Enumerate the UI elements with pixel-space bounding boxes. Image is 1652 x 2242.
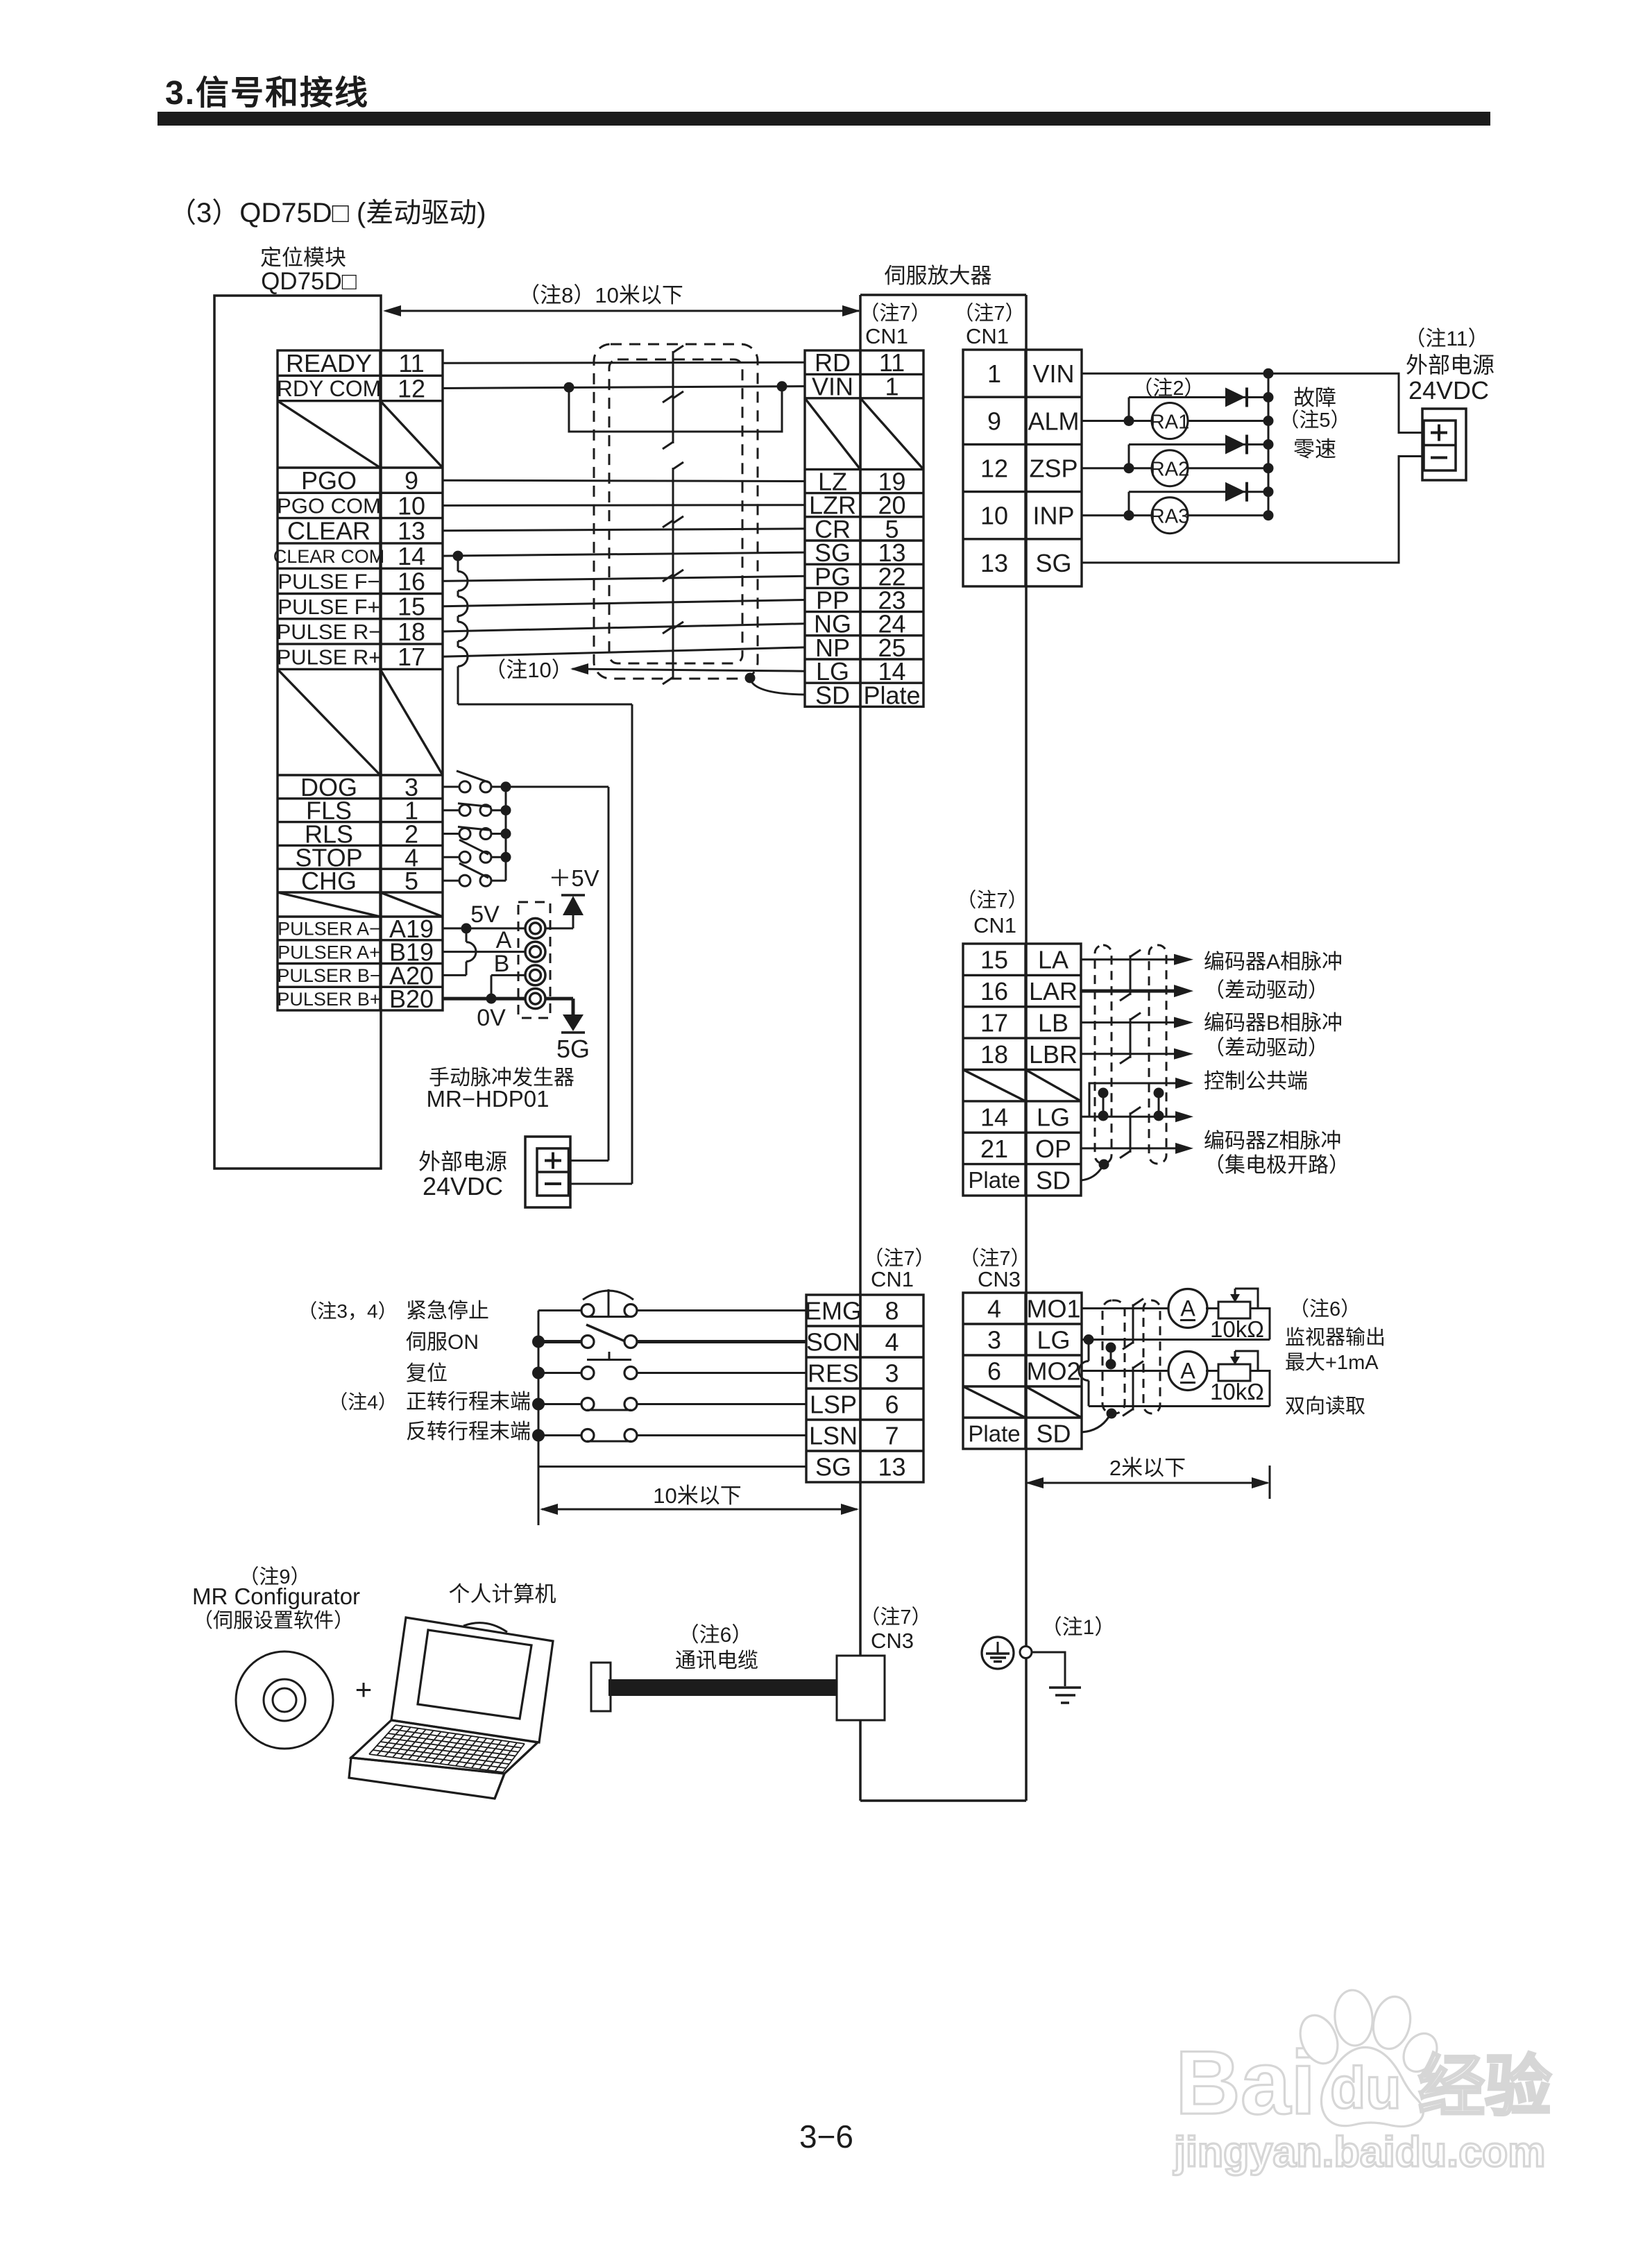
svg-text:5: 5 xyxy=(405,867,418,895)
servo CN1 control-input pin table xyxy=(806,1295,923,1482)
wire MO2 to meter xyxy=(1082,1370,1168,1372)
encoder cable sheath 1 (dashed) xyxy=(1095,945,1112,1164)
junction before RA3 xyxy=(1124,510,1134,520)
svg-text:个人计算机: 个人计算机 xyxy=(449,1582,556,1606)
note8 cable-length arrow xyxy=(386,310,859,312)
svg-text:编码器B相脉冲: 编码器B相脉冲 xyxy=(1204,1012,1343,1035)
svg-text:OP: OP xyxy=(1035,1135,1071,1163)
svg-text:10kΩ: 10kΩ xyxy=(1210,1379,1264,1404)
svg-text:（差动驱动）: （差动驱动） xyxy=(1204,979,1329,1002)
twisted pair symbol 3 xyxy=(672,468,674,522)
wire CLEARCOM drop segment xyxy=(457,556,459,571)
QD75D pin table xyxy=(278,350,443,1010)
junction before RA1 xyxy=(1124,416,1134,426)
twisted pair monitor 1 xyxy=(1132,1305,1134,1344)
svg-text:B: B xyxy=(494,951,510,977)
svg-text:（注1）: （注1） xyxy=(1041,1616,1116,1639)
pulser terminal 2 xyxy=(525,942,545,962)
bus extension xyxy=(538,1467,540,1526)
laptop body front xyxy=(349,1758,504,1799)
twisted pair symbol 2 xyxy=(672,397,674,443)
wire 5V down segment xyxy=(466,928,468,942)
svg-text:LAR: LAR xyxy=(1029,977,1078,1005)
svg-text:4: 4 xyxy=(885,1327,899,1356)
pulser terminal 3 xyxy=(525,965,545,985)
svg-text:RES: RES xyxy=(808,1359,859,1387)
potentiometer R1 10k xyxy=(1218,1302,1250,1318)
wire hop over PULSER A+ wire xyxy=(466,942,476,962)
dimension 10m line xyxy=(542,1509,857,1511)
svg-text:3: 3 xyxy=(885,1359,899,1387)
svg-text:MR Configurator: MR Configurator xyxy=(192,1583,360,1609)
svg-text:10: 10 xyxy=(980,502,1008,530)
shield tie b xyxy=(1158,1093,1160,1116)
junction bus DOG xyxy=(501,781,511,792)
svg-text:LSN: LSN xyxy=(809,1421,858,1450)
svg-text:PULSE F−: PULSE F− xyxy=(278,570,380,594)
minus terminal mark xyxy=(1431,457,1447,459)
terminal box (dashed) xyxy=(518,902,550,1018)
switch FLS blade xyxy=(458,804,491,807)
communication cable xyxy=(608,1679,837,1696)
svg-text:14: 14 xyxy=(980,1103,1008,1132)
svg-text:13: 13 xyxy=(878,1452,905,1481)
svg-text:13: 13 xyxy=(980,549,1008,577)
svg-text:正转行程末端: 正转行程末端 xyxy=(406,1391,531,1413)
svg-text:（注7）: （注7） xyxy=(859,302,930,325)
svg-text:MR−HDP01: MR−HDP01 xyxy=(427,1086,550,1112)
monitor cable sheath 1 (dashed) xyxy=(1102,1300,1125,1413)
svg-text:（3）QD75D□ (差动驱动): （3）QD75D□ (差动驱动) xyxy=(169,198,486,228)
svg-text:SG: SG xyxy=(1035,549,1071,577)
svg-text:LA: LA xyxy=(1038,946,1068,974)
wire SG common xyxy=(538,1466,806,1468)
wire hop over MO2 xyxy=(1079,1361,1089,1381)
svg-text:LG: LG xyxy=(1037,1103,1070,1132)
wire PULSER A+ to terminal A xyxy=(443,951,525,953)
wire SON switch to table xyxy=(637,1340,806,1343)
svg-text:CLEAR COM: CLEAR COM xyxy=(273,546,385,567)
svg-text:6: 6 xyxy=(885,1390,899,1418)
switch FLS contacts xyxy=(459,805,470,816)
encoder cable sheath 2 (dashed) xyxy=(1149,945,1166,1164)
wire RLS switch to bus xyxy=(491,833,506,835)
wire RDYCOM-VIN xyxy=(443,387,805,389)
wire CHG switch to bus xyxy=(491,880,506,882)
svg-text:18: 18 xyxy=(398,618,425,646)
wire STOP switch to bus xyxy=(491,856,506,858)
svg-text:PULSE F+: PULSE F+ xyxy=(278,595,380,619)
svg-text:B20: B20 xyxy=(389,985,434,1013)
svg-text:9: 9 xyxy=(987,407,1001,435)
svg-text:PGO COM: PGO COM xyxy=(277,494,381,518)
svg-text:复位: 复位 xyxy=(406,1362,448,1385)
svg-text:（注3，4）: （注3，4） xyxy=(298,1300,397,1322)
wire bus to SON switch xyxy=(538,1340,582,1343)
wire pot1 return xyxy=(1250,1309,1270,1340)
svg-text:CN1: CN1 xyxy=(966,324,1009,348)
junction LG b xyxy=(1154,1111,1164,1121)
svg-text:RDY COM: RDY COM xyxy=(277,376,382,401)
wire terminal4 to 5G arrow xyxy=(545,997,573,1001)
junction bus 3a xyxy=(1263,486,1274,497)
wire into battery minus xyxy=(570,1183,632,1185)
svg-text:15: 15 xyxy=(398,593,425,621)
cable sheath outer (dashed) xyxy=(594,344,758,679)
svg-text:监视器输出: 监视器输出 xyxy=(1285,1326,1386,1349)
wire SD to sheath monitor xyxy=(1082,1417,1109,1432)
+5V supply arrow xyxy=(563,896,584,915)
svg-text:QD75D□: QD75D□ xyxy=(261,268,357,295)
svg-text:A: A xyxy=(496,927,512,953)
twisted pair encoder A xyxy=(1130,956,1132,995)
svg-text:CN3: CN3 xyxy=(978,1267,1021,1291)
svg-text:A: A xyxy=(1180,1296,1195,1321)
svg-text:CN3: CN3 xyxy=(871,1629,914,1653)
svg-text:CN1: CN1 xyxy=(871,1267,914,1291)
svg-text:24VDC: 24VDC xyxy=(1408,376,1489,405)
switch STOP blade xyxy=(459,840,488,854)
ammeter A1 xyxy=(1168,1289,1207,1328)
earth ground symbol xyxy=(1049,1686,1081,1689)
servo CN1 encoder-output pin table xyxy=(963,944,1081,1196)
switch SON contacts xyxy=(581,1336,594,1348)
wire PULSER--NG xyxy=(443,624,805,631)
wire PULSER A- (5V) xyxy=(443,927,525,929)
svg-text:反转行程末端: 反转行程末端 xyxy=(406,1420,531,1443)
wire to earth xyxy=(1032,1652,1065,1686)
svg-text:A: A xyxy=(1180,1359,1195,1384)
svg-text:3−6: 3−6 xyxy=(799,2118,853,2155)
servo CN3 monitor pin table xyxy=(963,1293,1082,1449)
svg-text:CN1: CN1 xyxy=(973,913,1016,937)
wire LBR output xyxy=(1081,1053,1175,1055)
wire SD to sheath xyxy=(750,678,805,695)
switch common bus xyxy=(505,787,507,881)
svg-text:经验: 经验 xyxy=(1418,2050,1551,2124)
twisted pair symbol 5 xyxy=(672,575,674,628)
control switch bus xyxy=(538,1311,540,1467)
pulser terminal 4 xyxy=(525,989,545,1009)
svg-text:6: 6 xyxy=(987,1357,1001,1385)
wire PULSER B- stub xyxy=(443,974,466,976)
wire return bottom xyxy=(1089,1405,1270,1407)
wire bus to RES switch xyxy=(538,1372,582,1374)
wire RES switch to table xyxy=(637,1372,806,1374)
wire vertical to battery minus xyxy=(631,704,633,1184)
svg-text:READY: READY xyxy=(286,349,372,377)
junction bus 1b xyxy=(1263,416,1274,426)
svg-text:PULSER B−: PULSER B− xyxy=(277,965,380,986)
svg-text:故障: 故障 xyxy=(1293,386,1336,410)
junction bus 1a xyxy=(1263,392,1274,402)
svg-text:16: 16 xyxy=(980,977,1008,1005)
svg-text:11: 11 xyxy=(398,349,424,377)
svg-text:+: + xyxy=(355,1673,373,1706)
switch RLS contacts xyxy=(459,829,470,840)
wire OP output xyxy=(1081,1147,1175,1149)
servo CN1 output pin table xyxy=(963,350,1082,586)
external 24VDC supply (top) xyxy=(1422,409,1466,480)
svg-text:（注11）: （注11） xyxy=(1404,328,1488,350)
LSN switch bridge xyxy=(587,1441,631,1443)
svg-text:PULSER A−: PULSER A− xyxy=(278,919,380,940)
svg-text:编码器Z相脉冲: 编码器Z相脉冲 xyxy=(1204,1130,1341,1153)
relay coil RA2 xyxy=(1152,450,1188,486)
svg-text:（注6）: （注6） xyxy=(679,1624,753,1647)
wire hop over PULSE R+ wire xyxy=(458,647,468,666)
svg-text:SD: SD xyxy=(1036,1166,1071,1194)
svg-text:2米以下: 2米以下 xyxy=(1109,1456,1186,1480)
svg-text:（伺服设置软件）: （伺服设置软件） xyxy=(193,1609,354,1632)
svg-text:1: 1 xyxy=(885,373,899,401)
comm cable connector left xyxy=(591,1663,611,1711)
ammeter A2 xyxy=(1168,1352,1207,1391)
wire hop over PULSE R- wire xyxy=(458,622,468,641)
svg-text:VIN: VIN xyxy=(1032,359,1074,388)
svg-text:MO2: MO2 xyxy=(1026,1357,1080,1385)
wire bus to LSP switch xyxy=(538,1403,582,1405)
svg-text:18: 18 xyxy=(980,1040,1008,1069)
svg-text:（注5）: （注5） xyxy=(1279,409,1350,432)
svg-text:8: 8 xyxy=(885,1296,899,1325)
wire LG encoder xyxy=(1081,1116,1175,1118)
pulser terminal 1 xyxy=(525,918,545,938)
junction bus LSN xyxy=(532,1429,545,1442)
svg-text:伺服放大器: 伺服放大器 xyxy=(885,264,992,288)
wire diode branch 2 xyxy=(1128,445,1130,468)
svg-text:编码器A相脉冲: 编码器A相脉冲 xyxy=(1204,951,1343,974)
junction on VIN wire left xyxy=(564,382,574,393)
junction on CLEAR COM wire xyxy=(453,551,463,561)
switch DOG blade xyxy=(457,771,490,783)
junction VIN-bus xyxy=(1263,368,1274,379)
junction LG return xyxy=(1084,1334,1094,1345)
wire LSP switch to table xyxy=(637,1403,806,1405)
wire PULSER+-NP xyxy=(443,647,805,656)
wire SD to sheath encoder xyxy=(1081,1166,1102,1180)
svg-text:VIN: VIN xyxy=(812,373,853,401)
svg-text:1: 1 xyxy=(987,359,1001,388)
servo amplifier box xyxy=(860,294,1026,296)
laptop keyboard xyxy=(395,1725,525,1744)
junction bus 2b xyxy=(1263,463,1274,473)
svg-text:PULSE R−: PULSE R− xyxy=(277,620,382,644)
wire LAR output xyxy=(1081,990,1175,993)
wire meter2 to pot xyxy=(1206,1370,1218,1372)
title underline bar xyxy=(157,112,1490,126)
LSP switch bridge xyxy=(587,1409,631,1411)
svg-text:CLEAR: CLEAR xyxy=(287,517,371,545)
wire hop over PULSE F+ wire xyxy=(458,597,468,616)
diode D1 xyxy=(1225,388,1245,407)
laptop lid xyxy=(391,1617,553,1742)
svg-text:10kΩ: 10kΩ xyxy=(1210,1316,1264,1342)
svg-text:LBR: LBR xyxy=(1029,1040,1078,1069)
wire CLEAR-CR xyxy=(443,529,805,531)
RES pushbutton bridge xyxy=(587,1359,631,1361)
wire LG return xyxy=(1082,1339,1270,1341)
svg-text:Bai: Bai xyxy=(1175,2032,1315,2133)
svg-text:24VDC: 24VDC xyxy=(423,1172,503,1200)
svg-text:PGO: PGO xyxy=(301,466,357,495)
plus terminal mark xyxy=(1431,432,1447,434)
svg-text:PULSE R+: PULSE R+ xyxy=(277,645,382,669)
wire RA2 coil line xyxy=(1082,467,1152,469)
laptop body top xyxy=(351,1720,538,1774)
svg-text:LB: LB xyxy=(1038,1008,1068,1037)
wire STOP to switch xyxy=(443,856,459,858)
svg-text:（注7）: （注7） xyxy=(956,889,1028,912)
svg-text:外部电源: 外部电源 xyxy=(418,1149,507,1174)
junction bus RES xyxy=(532,1367,545,1379)
wire segment down to bus corner xyxy=(457,666,459,704)
svg-text:0V: 0V xyxy=(477,1005,506,1031)
wire CHG to switch xyxy=(443,880,459,882)
switch STOP contacts xyxy=(459,851,470,863)
wire PULSEF--PG xyxy=(443,576,805,581)
wire meter1 to pot xyxy=(1206,1307,1218,1309)
laptop body right xyxy=(504,1742,538,1774)
svg-text:（差动驱动）: （差动驱动） xyxy=(1204,1037,1329,1060)
svg-text:PULSER B+: PULSER B+ xyxy=(277,989,380,1010)
switch CHG blade xyxy=(459,863,488,878)
laptop screen xyxy=(418,1630,531,1719)
protective earth circle xyxy=(982,1637,1014,1669)
svg-text:（注10）: （注10） xyxy=(484,658,572,682)
svg-text:紧急停止: 紧急停止 xyxy=(406,1300,489,1323)
switch LSP contacts xyxy=(581,1398,594,1411)
junction LG a xyxy=(1098,1111,1109,1121)
svg-text:EMG: EMG xyxy=(805,1296,862,1325)
wire LB output xyxy=(1081,1021,1175,1024)
junction bus 3b xyxy=(1263,510,1274,520)
svg-text:16: 16 xyxy=(398,567,425,595)
CD-ROM disc xyxy=(236,1651,333,1749)
wire PGOCOM-LZR xyxy=(443,504,805,507)
monitor cable sheath 2 (dashed) xyxy=(1143,1300,1160,1413)
svg-text:SD: SD xyxy=(815,681,850,709)
switch RES contacts xyxy=(581,1367,594,1379)
svg-text:10米以下: 10米以下 xyxy=(653,1484,741,1508)
junction bus 2a xyxy=(1263,439,1274,450)
wire horizontal to x911 xyxy=(458,704,632,706)
relay coil RA3 xyxy=(1152,498,1188,534)
junction bus RLS xyxy=(501,829,511,839)
dimension 2m line xyxy=(1028,1482,1268,1484)
servo CN1 pulse-train pin table xyxy=(805,350,923,706)
svg-text:5G: 5G xyxy=(556,1035,590,1063)
junction 5V xyxy=(461,923,472,933)
wire PULSER B+ (0V) xyxy=(443,997,525,1001)
wire LSN switch to table xyxy=(637,1434,806,1436)
svg-text:LSP: LSP xyxy=(810,1390,857,1418)
svg-text:零速: 零速 xyxy=(1293,437,1336,461)
shield tie a xyxy=(1102,1093,1105,1116)
svg-text:10: 10 xyxy=(398,491,425,520)
switch CHG contacts xyxy=(459,875,470,886)
wire PULSEF+-PP xyxy=(443,600,805,606)
svg-text:ZSP: ZSP xyxy=(1029,454,1078,482)
wire terminal B stub xyxy=(491,974,525,976)
twisted pair symbol 4 xyxy=(672,522,674,576)
wire 5V down to B- wire xyxy=(466,962,468,976)
svg-text:PULSER A+: PULSER A+ xyxy=(278,942,380,962)
junction before RA2 xyxy=(1124,463,1134,473)
wire LG drop segment 2 xyxy=(1088,1381,1090,1407)
svg-text:RA1: RA1 xyxy=(1150,411,1189,434)
junction 0V xyxy=(486,994,497,1004)
wire CLEARCOM-SG xyxy=(443,552,805,556)
svg-text:21: 21 xyxy=(980,1135,1008,1163)
svg-text:SG: SG xyxy=(815,1452,851,1481)
svg-text:CN1: CN1 xyxy=(865,324,908,348)
wire RLS to switch xyxy=(443,833,459,835)
twisted pair symbol 1 xyxy=(672,351,674,397)
minus terminal mark bottom xyxy=(545,1182,561,1185)
svg-text:14: 14 xyxy=(398,542,425,570)
svg-text:Plate: Plate xyxy=(863,681,920,709)
svg-text:RA3: RA3 xyxy=(1150,506,1189,528)
switch DOG contacts xyxy=(459,781,470,792)
svg-text:12: 12 xyxy=(398,374,425,402)
wire terminal B down to 0V xyxy=(491,975,493,999)
wire diode branch 1 xyxy=(1128,398,1130,421)
switch EMG contacts xyxy=(581,1305,594,1317)
5G supply arrow xyxy=(563,1014,584,1031)
svg-text:SD: SD xyxy=(1036,1419,1071,1447)
diode D3 xyxy=(1225,482,1245,502)
svg-text:17: 17 xyxy=(980,1008,1008,1037)
wire terminal1 to +5V arrow xyxy=(545,927,573,929)
potentiometer R2 10k xyxy=(1218,1364,1250,1381)
svg-text:5V: 5V xyxy=(470,901,500,928)
wire RDYCOM return loop xyxy=(569,387,782,432)
wire DOG switch to bus xyxy=(491,785,506,788)
wire SG to external supply minus xyxy=(1082,457,1424,563)
svg-text:15: 15 xyxy=(980,946,1008,974)
twisted pair symbol 6 xyxy=(672,627,674,679)
wire LA output xyxy=(1081,958,1175,960)
svg-text:17: 17 xyxy=(398,643,425,671)
svg-text:4: 4 xyxy=(987,1294,1001,1323)
svg-text:7: 7 xyxy=(885,1421,899,1450)
wire segment xyxy=(457,591,459,596)
svg-text:（注8）10米以下: （注8）10米以下 xyxy=(518,283,683,307)
svg-text:（集电极开路）: （集电极开路） xyxy=(1204,1154,1349,1177)
junction bus LSP xyxy=(532,1398,545,1411)
svg-text:3.信号和接线: 3.信号和接线 xyxy=(165,75,369,112)
svg-text:（注4）: （注4） xyxy=(328,1391,398,1413)
twisted pair encoder Z xyxy=(1130,1112,1132,1153)
svg-text:MO1: MO1 xyxy=(1026,1294,1080,1323)
svg-text:RA2: RA2 xyxy=(1150,459,1189,481)
svg-text:3: 3 xyxy=(987,1325,1001,1354)
svg-text:jingyan.baidu.com: jingyan.baidu.com xyxy=(1173,2128,1546,2175)
wire RA3 coil line xyxy=(1082,514,1152,516)
wire diode branch 3 xyxy=(1128,492,1130,516)
svg-text:最大+1mA: 最大+1mA xyxy=(1285,1351,1379,1374)
twisted pair encoder B xyxy=(1130,1019,1132,1058)
wire LG drop segment xyxy=(1088,1340,1090,1361)
svg-text:（注7）: （注7） xyxy=(953,302,1025,325)
svg-text:通讯电缆: 通讯电缆 xyxy=(675,1649,758,1672)
svg-text:控制公共端: 控制公共端 xyxy=(1204,1070,1308,1093)
svg-text:伺服ON: 伺服ON xyxy=(406,1331,479,1354)
svg-text:Plate: Plate xyxy=(968,1167,1020,1193)
plus terminal mark bottom xyxy=(545,1160,561,1162)
svg-text:ALM: ALM xyxy=(1028,407,1079,435)
